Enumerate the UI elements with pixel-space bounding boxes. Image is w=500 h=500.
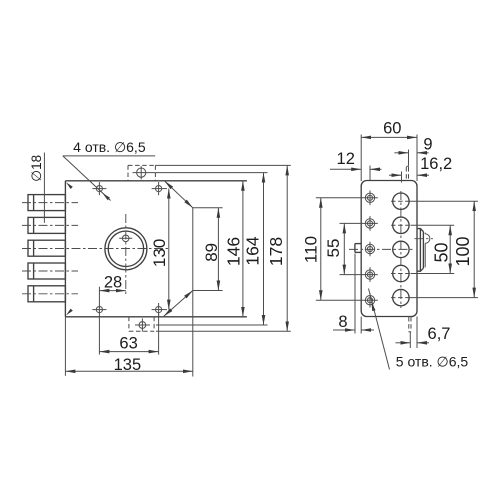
dim 60 line	[361, 136, 417, 138]
svg-text:60: 60	[383, 120, 401, 138]
bolt hole 2	[391, 217, 411, 233]
bolt hole 5	[391, 289, 411, 305]
fixing screw hole in cylinder	[119, 235, 132, 242]
lock body top edge + extension line	[65, 180, 247, 182]
svg-text:178: 178	[266, 237, 286, 266]
svg-text:9: 9	[423, 136, 432, 154]
svg-text:135: 135	[114, 356, 142, 374]
svg-text:∅18: ∅18	[29, 155, 44, 182]
dim 50 line	[449, 225, 451, 273]
bolt hole 1 extension (100)	[409, 200, 478, 202]
dim 89 bottom stub	[193, 290, 223, 292]
screw hole 2	[365, 216, 374, 231]
right jog connector / 135 extension line	[192, 208, 194, 377]
lock body left edge	[64, 181, 66, 317]
cylinder bump profile base	[417, 229, 420, 272]
bottom tab hole center extension	[156, 324, 268, 326]
dim 9 left segment	[394, 152, 408, 154]
screw hole 3	[365, 242, 374, 257]
dim 9 right segment	[417, 152, 429, 154]
bolt hole 5 extension (100)	[409, 297, 478, 299]
dim 60 right extension	[416, 135, 418, 182]
bolt 5	[28, 286, 65, 302]
dim 89 top stub	[193, 207, 223, 209]
bolt hole 4 extension (50)	[411, 273, 455, 275]
top tab top extension	[155, 164, 290, 166]
bolt hole 2 extension (50)	[411, 224, 455, 226]
cylinder ring inner	[108, 231, 143, 266]
svg-text:63: 63	[119, 335, 137, 353]
dim 63 extension right	[158, 313, 160, 354]
screw hole 1	[365, 191, 374, 206]
hidden slot edges above plate	[405, 167, 407, 181]
bolt hole 1	[391, 193, 411, 209]
svg-text:130: 130	[150, 239, 169, 267]
svg-text:28: 28	[104, 274, 122, 292]
cylinder bump outer face double line	[422, 232, 424, 269]
bolt hole column center line	[400, 191, 402, 308]
screw hole 3 center line through latch	[349, 248, 414, 250]
dim 6,7 reference extension	[409, 332, 411, 348]
jog diagonal top	[165, 181, 193, 208]
dim 8 plate edge extension	[360, 317, 362, 334]
screw hole 4 center extension (55)	[340, 274, 378, 276]
bolt 4	[28, 263, 65, 279]
cylinder vertical center line	[125, 214, 127, 294]
body hole top-right	[152, 182, 167, 195]
svg-text:55: 55	[324, 239, 343, 258]
svg-text:4 отв. ∅6,5: 4 отв. ∅6,5	[73, 139, 146, 155]
body hole bottom-right	[152, 303, 167, 316]
latch notch on left edge	[355, 244, 361, 253]
dim 6,7 plate edge extension	[416, 317, 418, 349]
top tab hole	[133, 166, 156, 179]
corner tick top-left	[66, 182, 73, 189]
body hole bottom-left	[92, 307, 106, 313]
cylinder bump chamfers	[420, 229, 423, 232]
svg-text:6,7: 6,7	[428, 325, 451, 343]
svg-text:164: 164	[243, 236, 263, 265]
dim 55 line	[343, 223, 345, 274]
bottom mounting tab (hidden)	[129, 317, 154, 332]
dim 178 line	[286, 165, 288, 331]
dim 16,2 left segment	[389, 174, 402, 176]
dim 130 line	[168, 189, 170, 310]
dim 164 line	[263, 173, 265, 325]
bolt 3 / cylinder center line	[22, 248, 168, 250]
leader arrowhead	[102, 193, 110, 200]
cylinder pin knob arc	[425, 234, 430, 243]
dim 8 right segment	[361, 329, 374, 331]
bolt 1 center line	[22, 202, 78, 204]
dim 16,2 right segment	[417, 174, 429, 176]
svg-text:50: 50	[432, 242, 452, 262]
dim 8 left segment	[333, 329, 355, 331]
top tab hole center extension	[155, 172, 267, 174]
dim 28 extension (left holes column)	[98, 287, 100, 355]
cylinder ring outer	[105, 228, 147, 270]
dim 89 line	[217, 208, 219, 291]
bolt 4 center line	[22, 270, 78, 272]
svg-text:5 отв. ∅6,5: 5 отв. ∅6,5	[396, 354, 469, 370]
svg-text:146: 146	[224, 237, 244, 266]
svg-text:100: 100	[453, 236, 473, 266]
dim 135 left extension	[64, 317, 66, 376]
dim 28 line	[99, 290, 125, 292]
screw hole 2 center extension (55)	[340, 222, 378, 224]
bolt hole 4	[391, 265, 411, 281]
dim 12 left segment	[330, 168, 361, 170]
leader shelf for 4 отв label	[63, 155, 155, 157]
faceplate outline	[361, 181, 417, 317]
bottom tab hole	[135, 318, 150, 331]
screw hole 1 center extension (110)	[316, 197, 378, 199]
bolt 2 center line	[22, 224, 78, 226]
hidden slot edges below plate	[408, 317, 410, 331]
dim 100 line	[473, 201, 475, 297]
bolt 5 center line	[22, 293, 78, 295]
5 отв leader arrowhead	[372, 302, 376, 311]
bolt 3	[28, 240, 65, 256]
dim 135 line	[65, 370, 192, 372]
dim 146 line	[242, 181, 244, 317]
lock body bottom edge + extension line	[65, 316, 247, 318]
corner tick bottom-left	[66, 309, 73, 316]
dim 12 extension stub	[369, 166, 371, 181]
bolt 1	[28, 195, 65, 211]
svg-text:8: 8	[338, 313, 347, 331]
5 отв leader line	[369, 289, 390, 370]
dim 63 line	[99, 351, 158, 353]
bolt 2	[28, 217, 65, 233]
dim 60 left extension	[360, 135, 362, 182]
body hole top-left	[92, 182, 106, 195]
jog diagonal bottom	[164, 291, 193, 317]
screw hole 5 center extension (110)	[316, 299, 378, 301]
dim 16,2 reference stub	[401, 172, 403, 183]
top mounting tab (hidden)	[128, 165, 155, 180]
dim 110 line	[320, 198, 322, 300]
bottom tab bottom extension	[156, 330, 291, 332]
svg-text:16,2: 16,2	[420, 155, 452, 173]
svg-text:89: 89	[202, 243, 221, 262]
cylinder knob center line	[415, 238, 434, 240]
bolt hole 3	[393, 241, 409, 257]
svg-text:110: 110	[302, 236, 321, 263]
dim 9 reference extension	[408, 150, 410, 166]
dim 6,7 left segment	[396, 342, 411, 344]
dim 6,7 right segment	[417, 342, 429, 344]
dim 12 right segment	[370, 168, 382, 170]
leader diagonal to hole	[63, 156, 111, 201]
svg-text:12: 12	[337, 150, 355, 168]
screw hole 4	[365, 267, 374, 282]
dia18 leader line	[43, 153, 45, 223]
dim 8 notch extension	[354, 254, 356, 334]
screw hole 5	[365, 293, 374, 308]
